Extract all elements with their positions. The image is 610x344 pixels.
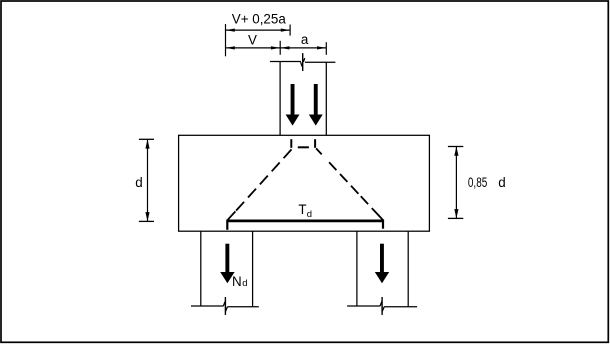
dimension d: top tick [139,138,154,140]
right pile reaction arrow [375,244,389,284]
column break symbol [301,53,305,71]
dimension a segment [280,46,326,49]
dimension d: vertical line [147,139,149,221]
column top cut line right segment [305,61,336,63]
dimension V segment [226,46,281,49]
left pile right edge [252,231,254,306]
tie left end stub [226,220,228,230]
dimension 0,85d: bottom tick [448,217,463,219]
svg-text:a: a [301,32,309,47]
column left edge [279,62,281,136]
svg-text:d: d [242,278,247,289]
dimension d: top arrow [145,139,149,148]
left pile break symbol [223,297,227,315]
dimension V/a: right tick [325,42,327,55]
strut dashed vertical right [314,139,316,148]
dimension V/a: middle tick [279,41,281,55]
pile cap outline [179,135,430,231]
dimension 0,85d: top arrow [454,147,458,156]
dimension 0,85d: top tick [448,146,463,148]
tie Td thick line [227,220,383,223]
column top cut line left segment [270,61,301,63]
left pile cut line right segment [228,306,259,308]
svg-text:0,85: 0,85 [468,175,487,190]
column right edge [325,62,327,135]
svg-text:d: d [307,209,312,220]
svg-text:N: N [232,274,242,289]
column load arrow left [286,84,300,126]
tie right end stub [382,220,384,229]
left pile cut line left segment [191,305,223,307]
label Td [298,202,312,220]
column load arrow right [309,84,323,126]
dimension V+0,25a: right tick [289,25,291,36]
strut dashed horizontal [298,146,309,148]
right pile left edge [356,231,358,306]
strut dashed diagonal right [316,148,384,220]
dimension d: bottom arrow [145,212,149,221]
strut dashed diagonal left [228,149,292,219]
label Nd [232,274,248,289]
left pile reaction arrow Nd [220,244,234,284]
dimension V+0,25a: line with arrows [226,28,291,31]
right pile right edge [407,231,409,306]
dimension V+0,25a: left extension line (shared) [225,24,227,56]
svg-text:d: d [135,175,142,190]
svg-text:V+ 0,25a: V+ 0,25a [232,12,287,27]
dimension 0,85d: bottom arrow [454,209,458,218]
right pile cut line left segment [347,305,380,307]
strut dashed vertical left [290,139,292,148]
right pile break symbol [380,297,384,315]
dimension 0,85d: vertical line [455,147,457,219]
left pile left edge [200,231,202,306]
svg-text:d: d [498,175,505,190]
right pile cut line right segment [384,306,417,308]
svg-text:T: T [298,202,306,217]
dimension d: bottom tick [139,220,154,222]
svg-text:V: V [248,32,257,47]
